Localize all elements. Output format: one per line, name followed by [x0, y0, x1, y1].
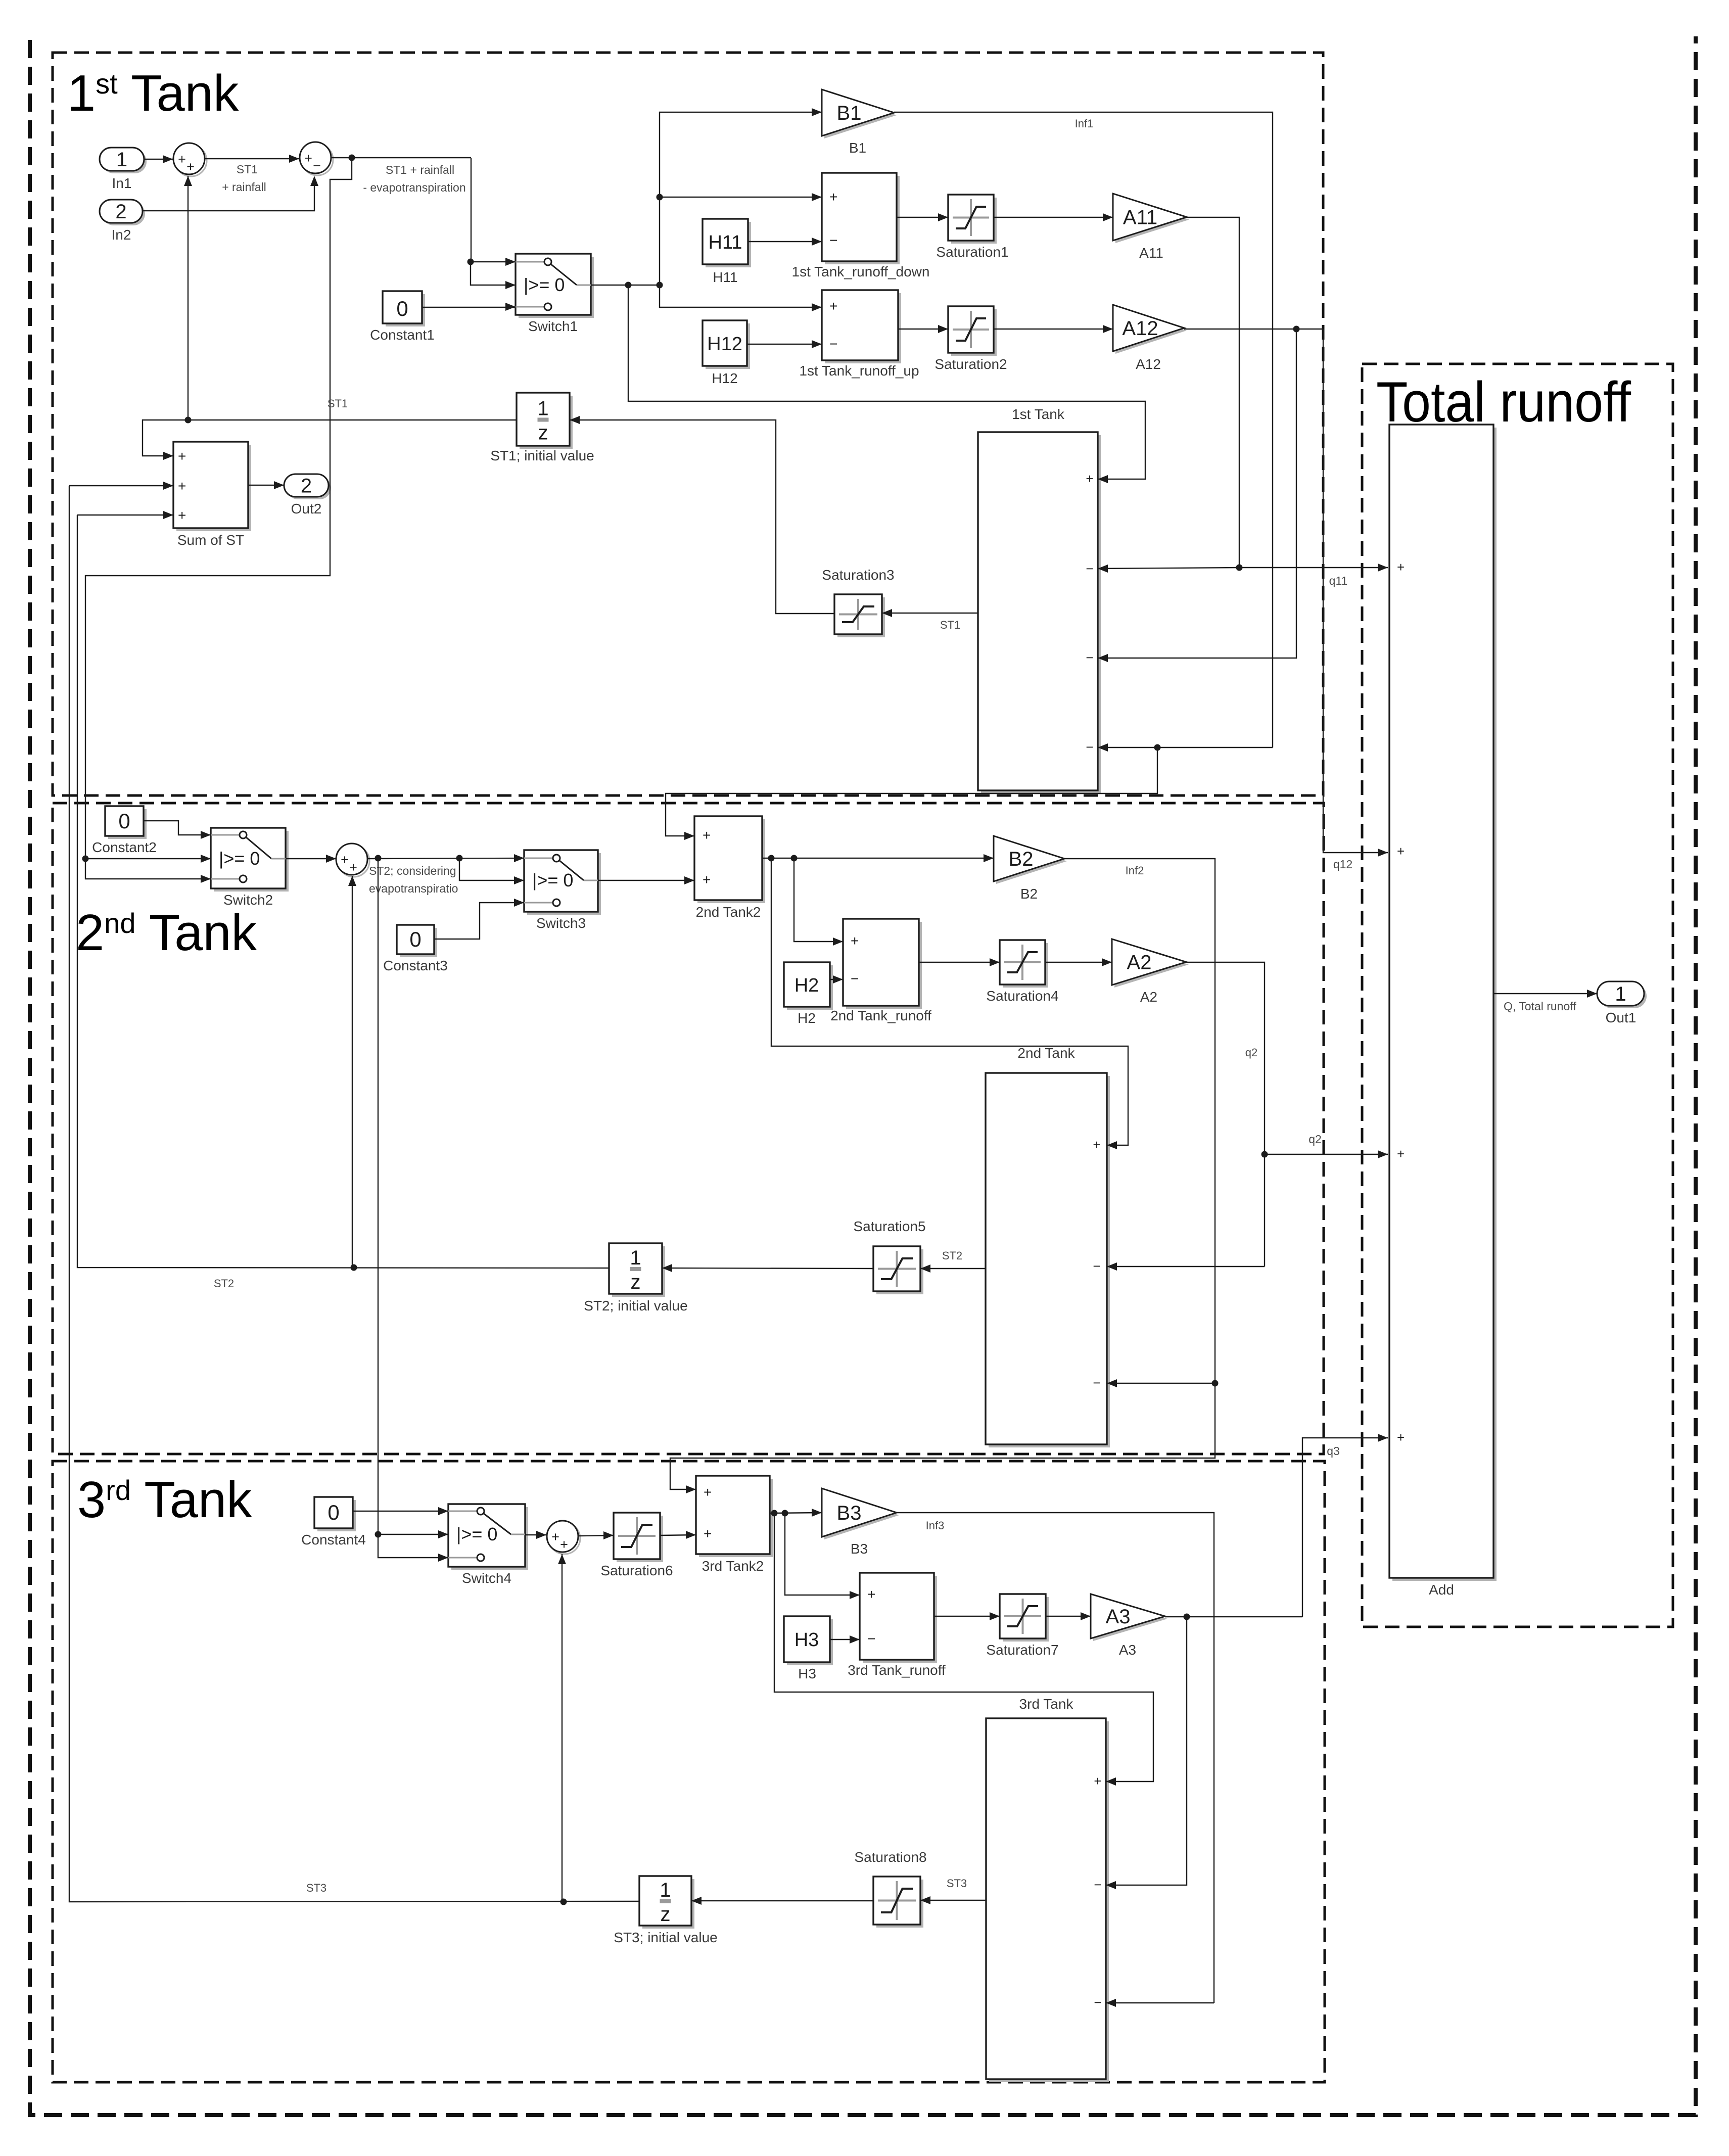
gain A12	[1115, 307, 1187, 354]
svg-text:A12: A12	[1136, 356, 1161, 372]
wire H3 to 3rd Tank_runoff minus	[830, 1639, 860, 1640]
svg-text:Constant4: Constant4	[301, 1532, 366, 1548]
svg-text:+: +	[851, 933, 859, 949]
svg-text:Saturation4: Saturation4	[986, 988, 1058, 1004]
subsystem 1st Tank_runoff_up	[825, 293, 901, 363]
svg-text:Constant2: Constant2	[92, 839, 157, 855]
sum block (ST1 + rainfall)	[175, 145, 207, 176]
wire H12 to runoff_up minus	[747, 344, 822, 345]
svg-text:A11: A11	[1139, 245, 1163, 261]
wire sum2-line into Switch4 input2	[378, 1534, 448, 1535]
svg-text:Q, Total runoff: Q, Total runoff	[1504, 1000, 1576, 1013]
svg-text:ST2; initial value: ST2; initial value	[584, 1298, 687, 1314]
wire 3rd Tank2 output down to 3rd Tank input1	[774, 1513, 1153, 1782]
wire ST3 into Sum of ST input	[69, 485, 173, 486]
subsystem 3rd Tank_runoff	[863, 1576, 937, 1663]
wire H11 to runoff_down minus	[748, 241, 822, 242]
unit delay ST3 1/z	[642, 1879, 694, 1929]
wire B1 output Inf1	[894, 112, 1273, 747]
Total runoff dashed box	[1362, 364, 1673, 1627]
svg-text:Out1: Out1	[1606, 1010, 1637, 1025]
svg-text:evapotranspiratio: evapotranspiratio	[369, 882, 458, 895]
svg-text:Switch4: Switch4	[462, 1570, 511, 1586]
svg-text:|>= 0: |>= 0	[456, 1524, 497, 1544]
svg-text:+: +	[829, 189, 837, 205]
wire Inf1 down to 2nd Tank2 input1	[666, 747, 1157, 836]
svg-text:In1: In1	[112, 175, 132, 191]
svg-text:+: +	[1397, 1430, 1405, 1445]
constant H12	[706, 323, 750, 369]
wire Saturation3 to unit delay	[570, 420, 834, 614]
wire ST3 feedback up into sum bottom	[562, 1554, 563, 1902]
switch Switch4	[451, 1507, 528, 1570]
svg-text:A3: A3	[1106, 1606, 1131, 1628]
wire Saturation5 to unit delay	[662, 1268, 873, 1269]
inport In1	[102, 150, 147, 173]
constant H2	[787, 965, 833, 1010]
svg-text:1: 1	[1615, 983, 1626, 1005]
constant H3	[787, 1619, 833, 1665]
svg-text:2nd Tank_runoff: 2nd Tank_runoff	[830, 1008, 931, 1023]
constant Constant2	[108, 809, 147, 839]
wire into Switch1 input1	[471, 158, 516, 262]
svg-text:H12: H12	[707, 334, 742, 355]
wire sum2 output with label ST1 + rainfall - evapotranspiration	[331, 157, 471, 158]
svg-text:ST1 + rainfall: ST1 + rainfall	[386, 163, 454, 176]
svg-text:Constant1: Constant1	[370, 327, 435, 343]
svg-text:0: 0	[396, 297, 408, 320]
svg-text:ST1: ST1	[328, 397, 348, 410]
wire Switch2 output to sum	[286, 858, 336, 859]
svg-text:3rd Tank2: 3rd Tank2	[702, 1558, 764, 1574]
wire 2nd Tank ST2 output to Saturation5	[920, 1268, 986, 1269]
wire In1 to sum	[144, 159, 173, 160]
svg-text:Saturation7: Saturation7	[986, 1642, 1058, 1658]
svg-text:+: +	[829, 298, 837, 314]
svg-text:Inf1: Inf1	[1075, 117, 1094, 130]
wire 2nd Tank2 output down to 2nd Tank input1	[771, 858, 1128, 1145]
wire ST1 feedback up into sum1 bottom	[188, 176, 189, 420]
saturation Saturation1	[951, 198, 997, 244]
wire q2 into Add with label	[1265, 1154, 1388, 1155]
wire A12 output	[1184, 329, 1323, 330]
constant H11	[706, 222, 751, 267]
svg-text:Saturation6: Saturation6	[600, 1563, 673, 1578]
svg-text:−: −	[829, 336, 837, 352]
svg-text:−: −	[313, 158, 321, 173]
wire B2 output Inf2	[1064, 859, 1215, 1383]
svg-text:+: +	[1086, 471, 1093, 486]
svg-text:In2: In2	[112, 227, 131, 243]
svg-text:+: +	[703, 827, 711, 843]
svg-text:z: z	[538, 422, 548, 444]
svg-text:ST1; initial value: ST1; initial value	[490, 448, 594, 463]
svg-text:+: +	[1093, 1137, 1100, 1152]
sum block 3rd Tank2	[699, 1479, 773, 1557]
1st Tank subsystem dashed box	[53, 53, 1323, 795]
wire Saturation8 to unit delay	[691, 1900, 873, 1901]
wire q12 into Add with label	[1323, 329, 1388, 853]
svg-text:q11: q11	[1329, 574, 1348, 587]
svg-text:−: −	[1086, 561, 1093, 576]
svg-text:1: 1	[660, 1879, 671, 1901]
wire unit delay output ST2	[77, 515, 609, 1268]
outport Out1	[1600, 984, 1647, 1008]
svg-text:−: −	[1094, 1877, 1101, 1892]
svg-text:−: −	[1093, 1258, 1100, 1274]
wire Constant1 to Switch1 input3	[422, 307, 516, 308]
svg-text:−: −	[1086, 739, 1093, 755]
wire sum2 output down (ST1 new)	[85, 158, 352, 859]
wire Switch1 output	[591, 285, 660, 286]
svg-text:+: +	[560, 1537, 568, 1552]
gain A2	[1114, 942, 1189, 988]
gain A3	[1093, 1597, 1167, 1641]
svg-text:ST1: ST1	[940, 619, 960, 631]
svg-text:- evapotranspiration: - evapotranspiration	[363, 181, 465, 194]
svg-text:H11: H11	[709, 232, 742, 253]
svg-text:3rd Tank: 3rd Tank	[77, 1472, 252, 1528]
wire ST2 feedback up into sum bottom	[352, 876, 353, 1268]
svg-text:+: +	[551, 1529, 559, 1544]
svg-text:Saturation2: Saturation2	[934, 356, 1007, 372]
svg-text:Constant3: Constant3	[383, 958, 448, 973]
wire branch to 3rd Tank_runoff plus	[785, 1513, 860, 1595]
svg-text:Add: Add	[1429, 1582, 1454, 1598]
svg-text:Inf3: Inf3	[926, 1519, 945, 1532]
svg-text:+: +	[186, 159, 195, 174]
saturation Saturation7	[1003, 1597, 1049, 1642]
svg-text:+: +	[349, 860, 357, 875]
wire sum to Saturation6	[578, 1535, 614, 1536]
wire q3 into Add with label	[1302, 1438, 1388, 1617]
svg-text:B1: B1	[849, 140, 866, 156]
svg-text:z: z	[661, 1903, 671, 1926]
wire 1st Tank ST1 output to Saturation3	[882, 613, 978, 614]
svg-text:+: +	[704, 1526, 712, 1541]
wire Constant4 to Switch4 input1	[353, 1511, 448, 1512]
outport Out2	[287, 477, 331, 499]
svg-text:|>= 0: |>= 0	[524, 274, 565, 295]
svg-text:ST3; initial value: ST3; initial value	[614, 1930, 717, 1945]
svg-text:B1: B1	[837, 102, 862, 124]
wire Inf2 into 2nd Tank input3	[1107, 1383, 1215, 1384]
constant Constant4	[317, 1500, 356, 1531]
svg-text:Inf2: Inf2	[1126, 864, 1144, 877]
svg-text:1st Tank: 1st Tank	[67, 65, 239, 122]
subsystem 2nd Tank_runoff	[846, 922, 922, 1009]
sum block ST2 considering evapotranspiration	[338, 846, 369, 877]
sum block 3rd tank	[549, 1523, 580, 1554]
switch Switch2	[214, 831, 289, 892]
constant Constant3	[400, 928, 437, 957]
wire B3 output Inf3	[897, 1513, 1214, 2003]
svg-text:Saturation5: Saturation5	[853, 1218, 925, 1234]
svg-text:+: +	[1397, 843, 1405, 859]
unit delay ST2 1/z	[612, 1246, 665, 1297]
wire branch to 1st Tank_runoff_up plus	[660, 285, 822, 307]
wire H2 to 2nd Tank_runoff minus	[830, 979, 843, 980]
constant Constant1	[386, 294, 425, 326]
svg-text:z: z	[631, 1271, 641, 1293]
wire A3 output	[1165, 1616, 1302, 1617]
svg-text:Out2: Out2	[291, 501, 322, 517]
svg-text:H2: H2	[798, 1010, 816, 1026]
wire unit delay output ST3	[69, 486, 639, 1902]
svg-text:|>= 0: |>= 0	[219, 848, 260, 869]
wire Constant3 to Switch3 input3	[434, 903, 524, 939]
wire Saturation4 to A2	[1045, 962, 1112, 963]
svg-text:B2: B2	[1009, 848, 1034, 870]
subsystem 1st Tank_runoff_down	[825, 176, 900, 264]
svg-text:+: +	[178, 507, 186, 523]
svg-text:3rd Tank: 3rd Tank	[1019, 1696, 1074, 1712]
wire sum2-line into Switch4 input3	[378, 1534, 448, 1558]
wire Constant2 to Switch2 input1	[144, 821, 211, 835]
sum block (minus evapotranspiration)	[302, 144, 333, 175]
svg-text:Switch3: Switch3	[536, 915, 586, 931]
wire A11 output down to q11	[1187, 217, 1239, 568]
svg-text:−: −	[1094, 1995, 1101, 2010]
switch Switch3	[527, 853, 601, 915]
wire Saturation7 to A3	[1046, 1616, 1091, 1617]
svg-text:+: +	[1094, 1773, 1101, 1789]
wire 3rd Tank ST3 output to Saturation8	[920, 1900, 986, 1901]
svg-text:0: 0	[328, 1501, 339, 1524]
svg-text:1st Tank_runoff_down: 1st Tank_runoff_down	[792, 264, 930, 279]
switch Switch1	[519, 257, 594, 318]
gain B2	[996, 838, 1067, 884]
svg-text:+: +	[704, 1484, 712, 1500]
svg-text:1: 1	[630, 1247, 641, 1269]
wire 2nd Tank_runoff to Saturation4	[919, 962, 1000, 963]
svg-text:ST2: ST2	[942, 1249, 962, 1262]
svg-text:2: 2	[301, 475, 312, 497]
svg-text:+ rainfall: + rainfall	[222, 180, 266, 194]
wire q11 into Add with label	[1239, 567, 1388, 568]
svg-text:−: −	[1086, 650, 1093, 665]
svg-text:0: 0	[118, 809, 130, 833]
svg-text:+: +	[1397, 559, 1405, 575]
gain B3	[824, 1491, 899, 1539]
wire 3rd Tank2 output to B3	[770, 1513, 822, 1513]
svg-text:ST2: ST2	[214, 1277, 234, 1290]
wire Saturation1 to A11	[994, 217, 1113, 218]
svg-text:−: −	[867, 1631, 875, 1647]
svg-text:ST3: ST3	[306, 1882, 326, 1894]
svg-text:+: +	[867, 1586, 875, 1602]
svg-text:ST3: ST3	[947, 1877, 967, 1890]
svg-text:2nd Tank: 2nd Tank	[1017, 1045, 1075, 1061]
unit delay ST1 1/z	[520, 396, 573, 449]
svg-text:2nd Tank2: 2nd Tank2	[696, 904, 761, 920]
wire ST1 line into Switch2 input2	[85, 858, 211, 859]
wire sum to sum2 with label ST1 + rainfall	[205, 158, 299, 159]
sum block Add	[1392, 428, 1497, 1581]
gain A11	[1115, 196, 1189, 243]
wire Switch1 output to 1st Tank input1	[628, 285, 1145, 479]
wire A2 into 2nd Tank input2	[1107, 1266, 1265, 1267]
svg-text:Saturation3: Saturation3	[822, 567, 894, 583]
wire sum output down to Switch4	[378, 858, 379, 1534]
svg-text:q12: q12	[1333, 858, 1352, 871]
svg-text:A2: A2	[1127, 952, 1152, 974]
svg-text:Switch2: Switch2	[223, 892, 273, 908]
svg-text:q2: q2	[1309, 1133, 1322, 1146]
2nd Tank subsystem dashed box	[53, 803, 1324, 1454]
svg-text:0: 0	[409, 927, 421, 951]
svg-text:ST1: ST1	[237, 163, 258, 176]
svg-text:H11: H11	[713, 269, 737, 285]
svg-text:Switch1: Switch1	[528, 318, 578, 334]
wire sum output to Switch3 input1	[367, 858, 524, 859]
svg-text:A2: A2	[1140, 989, 1157, 1005]
gain B1	[824, 92, 897, 138]
svg-text:+: +	[178, 448, 186, 464]
wire branch to 1st Tank_runoff_down plus	[660, 197, 822, 198]
saturation Saturation4	[1003, 943, 1048, 988]
wire 2nd Tank2 output to B2	[762, 858, 994, 859]
svg-text:H3: H3	[795, 1629, 819, 1651]
wire Inf1 into 1st Tank input4	[1098, 747, 1273, 748]
wire Saturation2 to A12	[994, 329, 1113, 330]
svg-text:B3: B3	[851, 1541, 868, 1557]
wire A2 output down with label q2	[1186, 962, 1265, 1267]
sum block Sum of ST	[176, 445, 251, 531]
svg-text:1st Tank: 1st Tank	[1012, 406, 1065, 422]
inport In2	[102, 202, 145, 225]
svg-text:H2: H2	[795, 975, 819, 996]
wire Saturation6 to 3rd Tank2	[660, 1535, 696, 1535]
svg-text:−: −	[851, 971, 859, 987]
wire Inf3 into 3rd Tank input3	[1106, 2002, 1214, 2003]
wire runoff_up to Saturation2	[898, 329, 948, 330]
saturation Saturation2	[951, 309, 997, 356]
svg-text:q2: q2	[1245, 1046, 1257, 1059]
wire 3rd Tank_runoff to Saturation7	[934, 1616, 1000, 1617]
svg-text:2: 2	[115, 201, 126, 223]
wire Switch4 output to sum	[525, 1534, 546, 1535]
wire ST1 line into Switch2 input3	[85, 859, 211, 879]
wire branch to 2nd Tank_runoff plus	[794, 858, 843, 942]
wire In2 to sum2 bottom	[143, 178, 314, 211]
svg-text:ST2; considering: ST2; considering	[369, 864, 456, 877]
wire A12 down into 1st Tank input3	[1098, 329, 1296, 658]
svg-text:Sum of ST: Sum of ST	[177, 532, 244, 548]
svg-text:+: +	[178, 478, 186, 494]
svg-text:2nd Tank: 2nd Tank	[76, 905, 257, 961]
svg-text:+: +	[304, 151, 312, 166]
svg-text:Saturation1: Saturation1	[936, 244, 1008, 260]
wire Switch1 output up to B1 and runoff_down	[660, 112, 822, 285]
svg-text:3rd Tank_runoff: 3rd Tank_runoff	[848, 1662, 946, 1678]
svg-text:+: +	[341, 852, 349, 867]
svg-text:1: 1	[116, 149, 127, 171]
svg-text:+: +	[178, 152, 186, 167]
svg-text:A3: A3	[1119, 1642, 1136, 1658]
wire unit delay output ST1	[143, 420, 517, 456]
wire Add output with label Q Total runoff	[1493, 993, 1597, 994]
3rd Tank subsystem dashed box	[53, 1461, 1325, 2082]
sum block 2nd Tank2	[697, 819, 765, 903]
svg-text:H12: H12	[712, 370, 737, 386]
svg-text:q3: q3	[1327, 1444, 1340, 1458]
svg-text:−: −	[829, 232, 837, 248]
wire q11 into 1st Tank input2	[1098, 568, 1239, 569]
wire into Switch1 input2	[471, 262, 516, 285]
svg-text:B2: B2	[1020, 886, 1038, 902]
svg-text:Saturation8: Saturation8	[854, 1849, 926, 1865]
svg-text:A11: A11	[1123, 207, 1157, 229]
svg-text:B3: B3	[837, 1502, 862, 1524]
wire Sum of ST to Out2	[248, 485, 284, 486]
wire Inf2 down to 3rd Tank2 input1	[670, 1383, 1215, 1489]
svg-text:H3: H3	[798, 1666, 816, 1681]
svg-text:−: −	[1093, 1375, 1100, 1390]
svg-text:1st Tank_runoff_up: 1st Tank_runoff_up	[799, 363, 919, 379]
svg-text:+: +	[1397, 1146, 1405, 1161]
wire branch to Switch3 input2	[459, 858, 524, 880]
svg-text:|>= 0: |>= 0	[532, 870, 573, 890]
wire A3 down into 3rd Tank input2	[1106, 1617, 1187, 1885]
saturation Saturation6	[617, 1516, 663, 1562]
wire Switch3 output to 2nd Tank2	[598, 880, 694, 881]
svg-text:1: 1	[537, 398, 548, 420]
wire runoff_down to Saturation1	[897, 217, 948, 218]
svg-text:+: +	[703, 872, 711, 887]
svg-text:A12: A12	[1122, 317, 1158, 340]
wire ST2 into Sum of ST input	[77, 514, 173, 515]
